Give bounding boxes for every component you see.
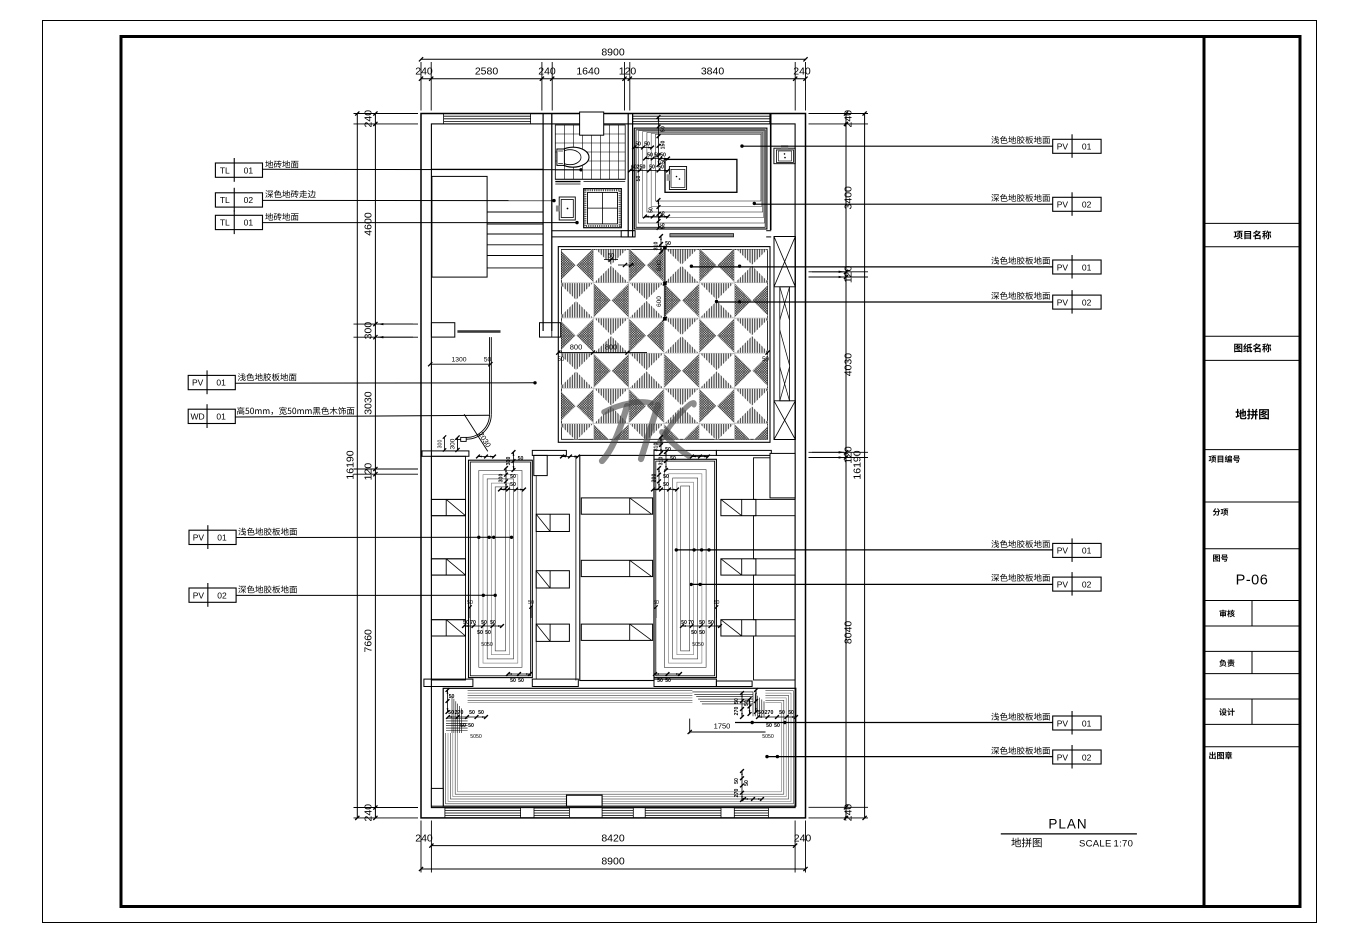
callout PV02 box left-low [189,588,236,602]
middle column table with chair diagonal [536,514,569,531]
shower tray with hatched border [584,189,622,228]
bottom-center white box on rug [567,795,603,806]
svg-text:50: 50 [758,710,764,716]
svg-text:PV: PV [1057,200,1069,210]
bathroom floor tile grid [555,125,625,179]
svg-text:120: 120 [363,463,375,481]
svg-text:50: 50 [467,600,473,606]
svg-text:50: 50 [448,710,454,716]
callout WD01 label 高50mm宽50mm黑色木饰面 [237,407,354,415]
svg-text:8420: 8420 [601,833,625,845]
door threshold dark bar [457,330,500,333]
svg-text:2580: 2580 [475,66,499,78]
svg-text:50: 50 [468,723,474,729]
title label 项目名称 [1234,230,1272,239]
callout TL02 box [215,193,262,207]
svg-text:70: 70 [688,620,694,626]
title label 图纸名称 [1234,343,1271,352]
svg-text:50: 50 [654,153,660,159]
callout PV01 left-low leader [236,536,511,538]
svg-text:7660: 7660 [363,629,375,653]
svg-text:16190: 16190 [345,450,357,479]
title block left border [1203,35,1206,907]
title label 分项 [1213,508,1229,515]
top chain extension lines [420,62,422,111]
callout PV02 box right y295.1 [1053,295,1101,309]
svg-text:PV: PV [1057,297,1069,307]
svg-text:TL: TL [220,218,230,228]
svg-text:PV: PV [1057,142,1069,152]
stair flight rectangle [432,176,487,277]
callout PV01 box right y139.3 [1053,139,1101,153]
bedroom rug nested border lines [638,131,764,223]
svg-text:800: 800 [605,343,618,352]
svg-text:50: 50 [779,710,785,716]
svg-text:50: 50 [484,357,492,364]
svg-text:3400: 3400 [843,186,855,210]
svg-text:50: 50 [657,678,663,684]
callout PV02 left-low leader [236,594,495,596]
svg-text:5050: 5050 [470,734,482,740]
svg-text:50: 50 [663,474,669,480]
right booth table with chair diagonal [721,499,756,515]
bathroom bedroom divider wall [627,114,629,238]
svg-text:50: 50 [649,207,655,213]
svg-text:300: 300 [652,474,658,483]
leader line right y146.2 [742,145,1053,147]
title label 项目编号 [1209,455,1240,463]
bottom rug nested borders [443,688,796,806]
entry right wall piece [540,323,561,337]
bedroom low table [665,159,737,192]
left wall 300 arrows [378,323,413,325]
seating bottom wall slabs [424,679,473,686]
bedroom right wall line [770,114,772,231]
tiny dims cluster right rug bottom-right [682,625,720,627]
title label 设计 with divider [1251,699,1253,724]
callout PV02 box right y750 [1053,750,1101,764]
callout PV01 box right y543.4 [1053,543,1101,557]
svg-text:PV: PV [1057,718,1069,728]
label right y577.1 [991,574,1050,582]
svg-text:50: 50 [663,482,669,488]
callout PV01 left-mid label 浅色地胶板地面 [238,373,297,381]
right booth table with chair diagonal [721,620,756,636]
right wall 120 arrows lower [812,451,844,453]
right wall 120 arrows upper [812,271,844,273]
svg-text:01: 01 [244,165,254,175]
svg-text:5050: 5050 [762,734,774,740]
svg-text:PV: PV [192,378,204,388]
svg-text:50: 50 [449,694,455,700]
svg-text:50: 50 [510,678,516,684]
svg-text:02: 02 [1082,200,1092,210]
svg-text:PV: PV [1057,546,1069,556]
tiny dims 300 entry lower [444,437,446,450]
svg-text:8900: 8900 [601,47,625,59]
svg-text:50: 50 [485,630,491,636]
tiny dims cluster bedroom bottom-left [658,200,660,228]
svg-text:4600: 4600 [363,212,375,236]
top chain dimension line [421,78,806,80]
diamond tile pattern [558,248,769,459]
svg-text:270: 270 [455,710,464,716]
svg-text:50: 50 [691,630,697,636]
svg-text:300: 300 [363,322,375,340]
svg-text:50: 50 [788,710,794,716]
inner wall rectangle [431,124,795,808]
closet column outer rect [774,237,795,440]
svg-text:50: 50 [762,357,769,363]
leader line right y756.6 [767,756,1053,758]
svg-text:1750: 1750 [714,722,731,731]
tiny dims cluster bedroom left 50s [634,147,652,149]
svg-text:3030: 3030 [363,391,375,415]
svg-text:50: 50 [528,600,534,606]
svg-text:PV: PV [1057,262,1069,272]
tiny dims cluster left rug top [513,452,515,470]
svg-text:50: 50 [774,723,780,729]
left booth column [431,456,465,499]
dimension 1300 in entry [430,363,490,365]
label right y295.1 [991,292,1050,300]
svg-text:50: 50 [708,620,714,626]
central bench bar with chair diagonal [581,498,652,514]
tile grid faint lines [558,248,767,440]
label right y197.3 [991,194,1050,202]
callout PV01 left-mid leader [235,382,535,384]
closet bottom X box [774,401,795,440]
svg-text:PV: PV [1057,579,1069,589]
callout TL01 box (lower) [215,215,262,229]
svg-text:50: 50 [463,620,469,626]
svg-text:800: 800 [570,343,583,352]
svg-text:240: 240 [363,110,375,128]
bottom wall window lines [445,807,521,809]
svg-text:01: 01 [1082,142,1092,152]
svg-text:50: 50 [518,678,524,684]
stair room divider line [431,168,543,170]
tiny dims cluster rug top seam y456 [478,456,494,458]
svg-text:50: 50 [734,778,740,784]
callout TL02 label 深色地砖走边 [265,190,315,198]
svg-text:300: 300 [438,440,444,449]
svg-text:TL: TL [220,195,230,205]
closet middle narrow rect with slashes [780,287,790,401]
svg-text:01: 01 [1082,546,1092,556]
central bench bar with chair diagonal [581,560,652,576]
svg-text:50: 50 [653,600,659,606]
top overall dimension 8900 [421,58,806,60]
left booth table with chair diagonal [431,499,465,515]
svg-text:310: 310 [659,457,665,466]
dimension 300 small in entry [457,438,459,451]
svg-text:50: 50 [665,241,671,247]
title block row lines [1206,222,1300,224]
svg-text:50: 50 [477,630,483,636]
svg-text:50: 50 [636,176,642,182]
svg-text:55: 55 [661,223,667,229]
svg-text:250: 250 [637,165,646,171]
svg-text:50: 50 [734,698,740,704]
svg-text:240: 240 [415,66,433,78]
svg-text:SCALE: SCALE [1079,839,1112,850]
svg-text:270: 270 [765,710,774,716]
corridor basin top right [774,148,795,164]
svg-text:01: 01 [1082,718,1092,728]
svg-text:3840: 3840 [701,66,725,78]
svg-text:50: 50 [647,153,653,159]
middle column table with chair diagonal [536,624,569,641]
svg-text:50: 50 [635,142,641,148]
label right y139.3 [991,136,1050,144]
callout WD01 leader [235,415,490,417]
drawing name 地拼图 [1235,409,1268,420]
bottom dimension 8900 [421,868,806,870]
stair treads [487,211,543,213]
entry curved partition arc [466,414,491,439]
tiny dims cluster bottom rug left corner [447,690,449,712]
left overall dimension 16190 [356,114,358,818]
diamond tile field outer rect [558,247,770,443]
callout PV01 box right y260 [1053,260,1101,274]
callout PV02 box right y197.3 [1053,197,1101,211]
svg-text:01: 01 [1082,262,1092,272]
svg-text:01: 01 [244,218,254,228]
callout PV01 left-low label 浅色地胶板地面 [238,528,297,536]
middle column vertical line [535,476,537,679]
svg-text:5050: 5050 [481,642,493,648]
svg-text:8040: 8040 [843,621,855,645]
svg-text:1640: 1640 [576,66,600,78]
svg-text:270: 270 [734,789,740,798]
right rug outer border [654,459,716,677]
leader line right y549.9 [676,549,1052,551]
PLAN underline [1001,833,1137,835]
svg-text:50: 50 [460,723,466,729]
stair room right wall [542,114,544,332]
svg-text:PLAN: PLAN [1048,817,1087,832]
tile dimension 600 600 vertical [664,247,666,319]
callout TL01 label 地砖地面 [265,160,298,168]
diamond tile field inner rect [561,250,767,440]
svg-text:50: 50 [490,620,496,626]
svg-text:50: 50 [699,630,705,636]
left dimension chain line [374,114,376,818]
callout WD01 box [188,409,235,423]
svg-text:240: 240 [538,66,556,78]
bathroom door opening white box [580,112,604,135]
right booth column [754,458,796,500]
svg-text:50: 50 [660,153,666,159]
svg-text:50: 50 [681,620,687,626]
svg-text:50: 50 [665,678,671,684]
label right y543.4 [991,540,1050,548]
svg-text:PV: PV [193,590,205,600]
top wall window lines left span [444,115,531,117]
bottom dimension 8420 [431,845,795,847]
leader line right y584.4 [691,583,1052,585]
dimension 1750 [690,731,766,733]
central area rectangle [580,455,654,680]
svg-text:TL: TL [220,165,230,175]
top wall window lines bedroom span [633,115,770,117]
svg-text:50: 50 [658,165,664,171]
callout PV01 box right y716 [1053,716,1101,730]
entry partition vertical double line [489,337,491,414]
right rug inner band lines [664,470,706,668]
svg-text:240: 240 [843,110,855,128]
svg-text:5050: 5050 [692,642,704,648]
tile dimension 800 800 [558,352,647,354]
entry left wall piece [431,323,454,337]
callout PV02 box right y577.1 [1053,577,1101,591]
svg-text:120: 120 [619,66,637,78]
bathroom sink [559,197,575,220]
door stub [461,437,467,441]
svg-text:02: 02 [217,590,227,600]
bottom extension lines [420,821,422,873]
svg-text:50: 50 [766,723,772,729]
right dimension chain line [845,114,847,818]
svg-text:50: 50 [478,710,484,716]
PLAN subtitle 地拼图 [1011,838,1041,848]
svg-text:01: 01 [216,412,226,422]
left rug outer border [469,460,533,677]
bedroom seat cushion [669,167,686,190]
svg-text:240: 240 [363,804,375,822]
svg-text:50: 50 [510,474,516,480]
leader line right y302 [717,301,1053,303]
left booth table with chair diagonal [431,620,465,636]
central left double wall line [575,455,577,680]
bathroom lower tile ledge [555,181,580,183]
callout TL01 lower leader [263,222,578,224]
bottom rug top-right corner step [692,690,765,717]
svg-text:50: 50 [510,482,516,488]
callout TL02 leader [263,199,555,201]
svg-text:02: 02 [244,195,254,205]
tiny dims cluster tile bottom 310 [660,437,662,453]
tiny dims cluster bottom rug lower right [741,771,743,800]
svg-text:P-06: P-06 [1236,573,1269,589]
bathroom bottom wall band [552,230,635,232]
left rug inner band lines [479,471,522,668]
tiny dims cluster rug bottoms [508,673,530,675]
right booth table with chair diagonal [721,559,756,575]
svg-text:50: 50 [558,357,565,363]
callout TL01 box (upper) [215,163,262,177]
callout TL01 lower label 地砖地面 [265,213,298,221]
tiny dims cluster bottom rug inner right [741,693,743,717]
svg-text:PV: PV [193,533,205,543]
title label 审核 with divider [1251,601,1253,627]
svg-text:50: 50 [649,165,655,171]
callout PV01 box left-mid [188,375,235,389]
leader line right y722.5 [735,722,1053,724]
gray TX watermark [604,402,651,412]
svg-text:50: 50 [661,126,667,132]
svg-text:300: 300 [499,474,505,483]
callout PV01 box left-low [189,530,236,544]
svg-text:310: 310 [506,457,512,466]
central bench bar with chair diagonal [581,624,652,640]
svg-text:240: 240 [843,804,855,822]
door leaf line [464,414,488,451]
tiny dims cluster bedroom top-left [658,117,660,165]
svg-text:50: 50 [744,780,750,786]
title label 图号 [1213,554,1228,561]
label right y260 [991,257,1050,265]
tiny dims cluster bottom rug right corner [755,690,757,712]
bedroom rug outer border [634,128,767,229]
svg-text:01: 01 [216,378,226,388]
svg-text:4030: 4030 [843,353,855,377]
middle column table with chair diagonal [536,571,569,588]
bottom-left white column box [431,788,443,806]
label right y716 [991,713,1050,721]
svg-text:70: 70 [470,620,476,626]
tiny dims cluster right rug top [665,452,667,470]
leader line right y266.9 [691,266,1052,268]
tiny dims cluster below bedroom 310 [660,236,662,252]
svg-text:270: 270 [734,707,740,716]
svg-text:50: 50 [644,142,650,148]
right top corner box [770,453,795,498]
right chain extension lines [809,113,869,115]
svg-text:310: 310 [654,443,660,452]
svg-text:1:70: 1:70 [1114,839,1134,850]
closet top X box [774,237,795,287]
title label 出图章 [1209,752,1232,760]
left chain extension lines [354,113,419,115]
svg-text:120: 120 [843,265,855,283]
svg-text:150: 150 [661,141,667,150]
svg-text:1300: 1300 [451,357,466,364]
svg-text:50: 50 [481,620,487,626]
bottom rug top-left corner step [444,690,467,734]
svg-text:02: 02 [1082,752,1092,762]
svg-text:240: 240 [793,66,811,78]
svg-text:600: 600 [656,296,663,307]
title label 负责 with divider [1251,651,1253,673]
tiny dims cluster left rug bottom-left [464,625,502,627]
left booth table with chair diagonal [431,559,465,575]
callout TL01 leader [263,168,582,171]
bathroom left wall lower chunk [551,114,553,338]
right overall dimension 16190 [864,114,866,818]
svg-text:240: 240 [794,833,812,845]
seating top wall slabs [422,451,469,456]
svg-text:50: 50 [699,620,705,626]
svg-text:WD: WD [191,412,205,422]
bedroom rug fringe bar [670,234,734,237]
svg-text:02: 02 [1082,297,1092,307]
svg-text:240: 240 [415,833,433,845]
tiny dims cluster bedroom left row [630,170,668,172]
svg-text:310: 310 [654,242,660,251]
toilet [557,147,589,167]
svg-text:50: 50 [714,600,720,606]
leader line right y204.2 [754,203,1052,205]
svg-text:01: 01 [217,533,227,543]
svg-text:PV: PV [1057,752,1069,762]
label right y750 [991,747,1050,755]
svg-text:600: 600 [656,260,663,271]
svg-text:50: 50 [518,456,524,462]
callout PV02 left-low label 深色地胶板地面 [238,585,297,593]
svg-text:50: 50 [469,710,475,716]
